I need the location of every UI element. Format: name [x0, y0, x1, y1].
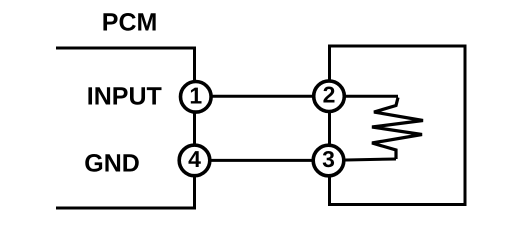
wire pin4 to pin3 (GND) — [195, 159, 329, 162]
svg-text:3: 3 — [322, 146, 335, 172]
resistor R (zigzag) — [372, 98, 423, 160]
PCM module box (open left side) — [56, 48, 195, 208]
svg-text:INPUT: INPUT — [87, 83, 162, 111]
svg-text:GND: GND — [84, 150, 140, 178]
resistor bottom lead wire — [329, 159, 397, 160]
pin 1 — [181, 82, 212, 113]
resistor top lead wire — [329, 95, 398, 98]
svg-text:PCM: PCM — [102, 9, 158, 37]
svg-text:1: 1 — [189, 83, 202, 109]
pin 4 — [179, 145, 210, 176]
wire pin1 to pin2 (INPUT) — [196, 95, 330, 98]
sensor box — [330, 46, 466, 205]
svg-text:2: 2 — [323, 82, 336, 108]
pin 3 — [313, 145, 344, 176]
svg-text:4: 4 — [188, 146, 201, 172]
pin 2 — [314, 81, 345, 112]
